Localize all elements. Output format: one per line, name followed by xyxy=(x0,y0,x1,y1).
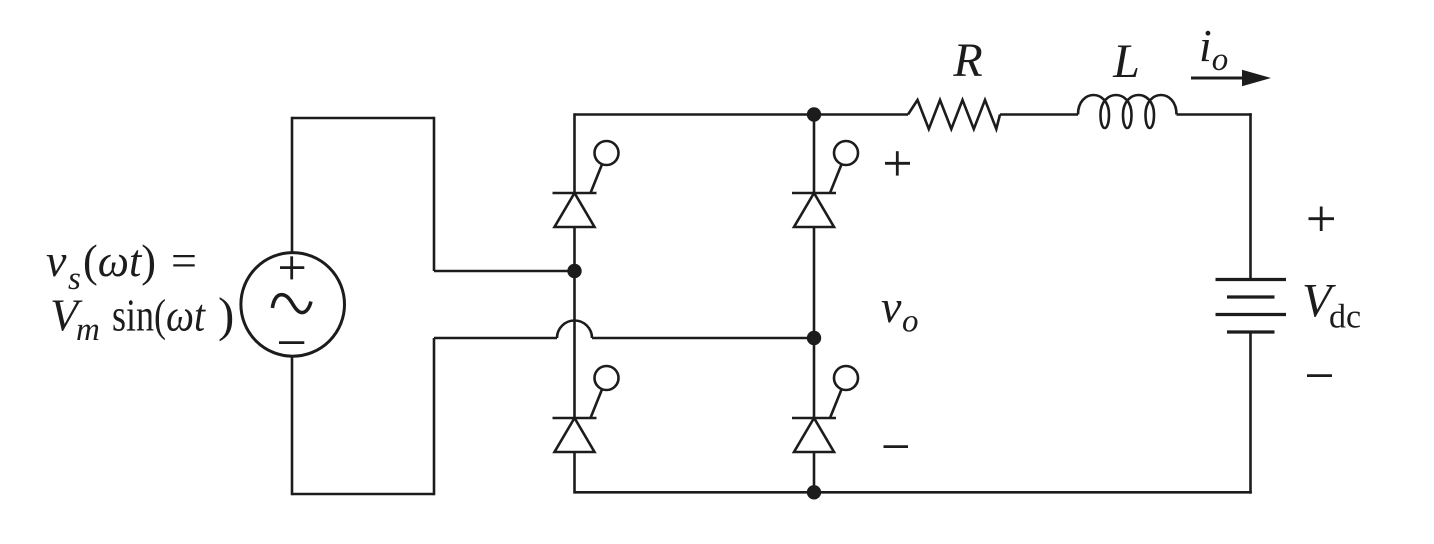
svg-text:): ) xyxy=(218,287,234,342)
svg-text:R: R xyxy=(952,34,982,87)
svg-text:v: v xyxy=(881,281,902,332)
svg-text:(ωt): (ωt) xyxy=(83,235,156,286)
svg-text:L: L xyxy=(1112,35,1140,88)
svg-text:=: = xyxy=(171,235,197,286)
svg-text:o: o xyxy=(902,304,919,340)
svg-text:dc: dc xyxy=(1329,299,1361,336)
svg-text:m: m xyxy=(76,312,100,348)
svg-text:io: io xyxy=(1199,20,1228,78)
svg-text:ωt: ωt xyxy=(166,290,206,341)
svg-text:sin(: sin( xyxy=(112,290,166,341)
svg-text:v: v xyxy=(46,235,67,286)
